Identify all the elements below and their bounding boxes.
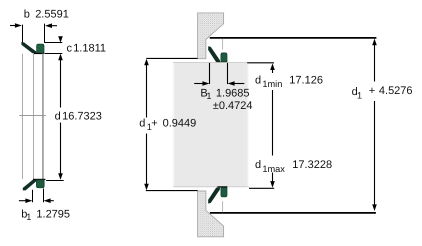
- seal lip (bottom, left diagram): [23, 180, 37, 191]
- dimension b1 extension line left: [32, 190, 34, 203]
- svg-text:d: d: [55, 111, 61, 123]
- seat face extension line bottom: [146, 190, 198, 192]
- svg-text:+: +: [151, 118, 157, 130]
- shaft bottom edge extension line: [249, 187, 274, 189]
- seal lip inner wall line: [33, 54, 35, 179]
- dimension B1 extension line right: [227, 63, 229, 84]
- svg-text:1.9685: 1.9685: [216, 88, 250, 100]
- housing block lower: [198, 191, 224, 237]
- dimension b extension line right: [44, 24, 46, 43]
- shaft block: [173, 63, 249, 187]
- dimension d1+4.5276 arrow down: [372, 204, 377, 211]
- bore surface line bottom: [210, 212, 376, 214]
- dimension c extension line bottom: [45, 53, 62, 55]
- seal lip (top, left diagram): [21, 42, 36, 53]
- dimension d line lower segment: [60, 123, 62, 175]
- dimension c label: [67, 42, 107, 54]
- dimension d1max arrow down: [270, 173, 275, 188]
- dimension b arrow right: [45, 23, 57, 28]
- installed seal body (bottom): [221, 188, 227, 197]
- svg-text:1: 1: [206, 91, 211, 101]
- dimension B1 tolerance label: [213, 100, 253, 112]
- dimension b arrow left: [10, 23, 22, 28]
- svg-text:2.5591: 2.5591: [35, 9, 69, 21]
- installed seal bottom edge line (top): [217, 61, 227, 63]
- dimension d1+4.5276 label: [352, 85, 413, 100]
- seal body inner wall line: [42, 54, 44, 179]
- svg-text:17.126: 17.126: [289, 74, 323, 86]
- bore edge tick top: [222, 39, 224, 50]
- dimension d1max label: [255, 159, 332, 174]
- bore surface line top: [210, 37, 377, 39]
- dimension B1 label: [200, 88, 249, 102]
- dimension d1+0.9449 arrow down: [144, 184, 149, 191]
- installed seal body (top): [221, 53, 227, 62]
- housing block upper: [198, 13, 224, 59]
- svg-text:1.2795: 1.2795: [36, 208, 70, 220]
- dimension d line upper segment: [60, 59, 62, 108]
- dimension b extension line left: [22, 25, 24, 43]
- svg-text:16.7323: 16.7323: [62, 111, 102, 123]
- dimension d extension line bottom: [46, 180, 64, 182]
- dimension b1 extension line right: [43, 189, 45, 203]
- dimension d1 line middle segment: [272, 90, 274, 156]
- dimension B1 arrow left: [194, 81, 209, 86]
- dimension d1+4.5276 line lower segment: [374, 101, 376, 206]
- dimension d1min arrow up: [270, 63, 275, 73]
- dimension b1 arrow right: [44, 198, 54, 203]
- dimension d label: [55, 111, 102, 123]
- seal body (top, left diagram): [37, 44, 44, 53]
- svg-text:c: c: [67, 42, 73, 54]
- dimension c arrow down: [58, 36, 63, 43]
- svg-text:1: 1: [26, 212, 31, 222]
- installed seal top edge line (bottom): [217, 186, 227, 188]
- svg-text:b: b: [24, 9, 30, 21]
- dimension b1 arrow left: [19, 198, 33, 203]
- installed seal lip (top): [208, 46, 220, 62]
- dimension d1+4.5276 arrow up: [372, 39, 377, 82]
- dimension d1+0.9449 arrow up: [144, 59, 149, 66]
- svg-text:1max: 1max: [262, 164, 285, 174]
- svg-text:1: 1: [357, 91, 362, 101]
- dimension d1+0.9449 line upper segment: [146, 64, 148, 118]
- svg-text:4.5276: 4.5276: [379, 85, 413, 97]
- svg-text:1min: 1min: [262, 79, 282, 89]
- dimension d1min label: [255, 74, 323, 89]
- seal outer wall line (left): [22, 54, 24, 179]
- svg-text:17.3228: 17.3228: [292, 159, 332, 171]
- bore edge tick bottom: [222, 201, 224, 212]
- dimension d arrow up (shared with c lower arrow): [58, 54, 63, 61]
- seal bottom edge line (top seal): [34, 53, 45, 55]
- svg-text:+: +: [369, 85, 375, 97]
- seat face extension line top: [146, 57, 197, 59]
- svg-text:±0.4724: ±0.4724: [213, 100, 253, 112]
- dimension B1 extension line left: [209, 63, 211, 84]
- seal body outer wall line: [43, 54, 45, 179]
- dimension c extension line top: [44, 42, 62, 44]
- center mark dash: [19, 115, 46, 117]
- dimension d1+0.9449 label: [139, 118, 196, 132]
- svg-text:1.1811: 1.1811: [73, 42, 106, 54]
- svg-text:d: d: [255, 74, 261, 86]
- shaft top edge extension line: [247, 62, 274, 64]
- dimension d arrow down: [58, 173, 63, 180]
- svg-text:d: d: [139, 118, 145, 130]
- installed seal lip (bottom): [208, 188, 220, 204]
- seal top edge line (bottom seal): [33, 178, 45, 180]
- svg-text:d: d: [255, 159, 261, 171]
- dimension b1 label: [21, 208, 70, 222]
- dimension d1+0.9449 line lower segment: [146, 134, 148, 186]
- dimension B1 arrow right: [228, 81, 245, 86]
- seal body texture (top): [37, 45, 44, 54]
- dimension b label: [24, 9, 69, 21]
- svg-text:0.9449: 0.9449: [163, 118, 197, 130]
- seal body (bottom, left diagram): [36, 180, 44, 188]
